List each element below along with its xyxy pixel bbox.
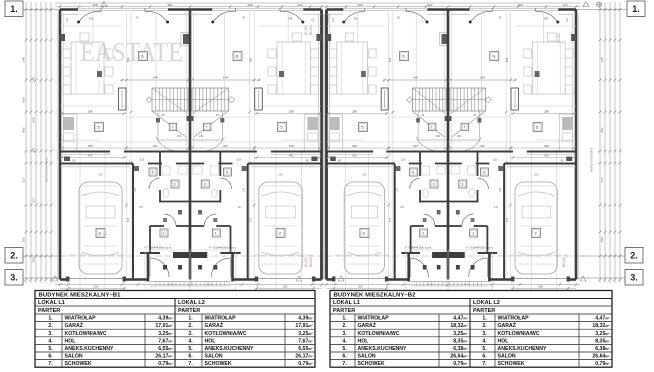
svg-text:250: 250 xyxy=(94,285,99,289)
wall garage side B1-L1 xyxy=(132,164,134,280)
wc fixtures B2-L2 xyxy=(468,166,476,175)
svg-text:4.: 4. xyxy=(188,338,193,344)
driveway lines B1-L1 xyxy=(67,281,69,290)
porch columns B1-L2 xyxy=(213,265,217,270)
svg-text:123: 123 xyxy=(401,158,406,162)
wc fixtures B1-L1 xyxy=(162,166,170,175)
wall garage top B1-L2 xyxy=(248,163,322,165)
room label 7 schowek B1-L1 xyxy=(169,123,177,131)
svg-text:WIATROŁAP: WIATROŁAP xyxy=(498,316,530,322)
section marker 1 left xyxy=(5,1,23,17)
dimension chain bottom xyxy=(55,284,580,286)
wardrobe B2-L2 xyxy=(511,88,518,110)
svg-text:982: 982 xyxy=(32,147,36,152)
svg-text:123: 123 xyxy=(566,17,569,22)
svg-text:LOKAL L1: LOKAL L1 xyxy=(38,300,65,306)
svg-text:250: 250 xyxy=(98,173,103,177)
svg-text:1.: 1. xyxy=(632,4,640,14)
svg-text:298: 298 xyxy=(352,144,357,148)
room label 2 garage B2-L1 xyxy=(360,229,369,238)
svg-text:LOKAL L1: LOKAL L1 xyxy=(333,300,360,306)
svg-text:2.: 2. xyxy=(363,231,366,236)
dim below mid B1-L2 xyxy=(255,157,322,159)
svg-text:EASTATE: EASTATE xyxy=(80,37,183,67)
svg-text:250: 250 xyxy=(283,285,288,289)
svg-text:402: 402 xyxy=(153,144,158,148)
wall mid B2-L1 xyxy=(327,151,374,153)
room label 7 schowek B1-L2 xyxy=(203,123,211,131)
garage door B2-L1 xyxy=(334,278,386,280)
wall wiatrolap B1-L2 xyxy=(230,226,232,253)
faint horizontals B2-L1 xyxy=(327,25,385,27)
svg-text:560: 560 xyxy=(505,57,509,62)
room label 6 salon B2-L2 xyxy=(490,52,499,61)
room label 4 hol B1-L1 xyxy=(149,168,157,176)
svg-text:298: 298 xyxy=(543,17,548,21)
svg-text:147: 147 xyxy=(400,206,405,209)
svg-text:129: 129 xyxy=(134,187,137,192)
svg-text:7.: 7. xyxy=(172,126,175,130)
svg-text:147: 147 xyxy=(494,206,499,209)
svg-text:7.: 7. xyxy=(48,361,53,367)
svg-text:3.: 3. xyxy=(630,273,638,283)
wall top B1-L1 xyxy=(60,8,78,11)
unit B1-L2 group xyxy=(190,8,324,290)
porch columns B1-L1 xyxy=(163,265,167,270)
entrance steps B1-L1 xyxy=(150,281,190,283)
room label 5 kitchen B1-L2 xyxy=(278,123,287,132)
window sill lines top B2-L2 xyxy=(470,7,559,9)
chimney B1-L1 xyxy=(183,34,190,44)
svg-text:123: 123 xyxy=(311,17,314,22)
window sill lines top B1-L1 xyxy=(78,7,168,9)
svg-text:LOKAL L2: LOKAL L2 xyxy=(473,300,500,306)
chairs B1-L2 xyxy=(310,49,318,58)
wall room3 B2-L1 xyxy=(419,152,421,177)
svg-text:298: 298 xyxy=(92,3,97,7)
svg-text:SALON: SALON xyxy=(358,354,376,360)
svg-text:402: 402 xyxy=(413,144,418,148)
svg-text:147: 147 xyxy=(139,206,144,209)
svg-text:123: 123 xyxy=(66,17,69,22)
section marker 1 right xyxy=(627,1,645,17)
drain box outer wall B2-L1 xyxy=(327,34,332,41)
wall mid B2-L2 xyxy=(527,151,576,153)
svg-text:148: 148 xyxy=(22,57,26,62)
table BUDYNEK MIESZKALNY–B2 row lines xyxy=(330,305,612,307)
garage door line B2-L2 xyxy=(511,254,568,256)
porch columns B2-L2 xyxy=(471,265,475,270)
entrance door swing B1-L1 xyxy=(150,258,169,277)
entrance door swing B1-L2 xyxy=(211,258,230,277)
svg-text:3.: 3. xyxy=(461,183,464,187)
svg-text:298: 298 xyxy=(288,17,293,21)
wall room3 B1-L1 xyxy=(159,152,161,177)
room label 1 wiatrolap B1-L1 xyxy=(160,229,168,237)
svg-text:SCHOWEK: SCHOWEK xyxy=(358,361,385,367)
driveway lines B2-L1 xyxy=(333,281,335,290)
svg-text:3.: 3. xyxy=(482,331,487,337)
wall centre B1-L1 xyxy=(189,10,191,280)
svg-text:560: 560 xyxy=(249,57,253,62)
faint horizontals B1-L1 xyxy=(60,25,122,27)
svg-text:6.: 6. xyxy=(493,54,496,59)
svg-text:298: 298 xyxy=(544,109,549,113)
door room3 B1-L2 xyxy=(220,178,231,189)
driveway lines B1-L2 xyxy=(312,281,314,290)
door swing right B2-L1 xyxy=(406,11,427,22)
wall room3 B2-L2 xyxy=(477,152,479,177)
svg-text:7.: 7. xyxy=(431,126,434,130)
svg-text:GARAŻ: GARAŻ xyxy=(498,322,517,329)
dining table B1-L1 xyxy=(71,42,104,94)
svg-text:7.: 7. xyxy=(206,126,209,130)
svg-text:123: 123 xyxy=(562,3,567,7)
car B1-L2 xyxy=(259,182,303,274)
section marker 3 left xyxy=(5,270,23,286)
svg-text:2.: 2. xyxy=(99,231,102,236)
room label 4 hol B1-L2 xyxy=(223,168,231,176)
kitchen B2-L1 xyxy=(328,114,343,151)
stair arc B1-L2 xyxy=(200,137,224,151)
svg-text:123: 123 xyxy=(236,158,241,162)
svg-text:7.: 7. xyxy=(482,361,487,367)
dim bottom B1-L1 xyxy=(60,288,126,290)
svg-text:250: 250 xyxy=(22,237,26,242)
chairs B2-L1 xyxy=(329,49,337,58)
dim below mid B2-L2 xyxy=(511,157,576,159)
svg-text:3.: 3. xyxy=(188,331,193,337)
svg-text:402: 402 xyxy=(352,154,357,158)
svg-text:ANEKS.KUCHENNY: ANEKS.KUCHENNY xyxy=(358,346,408,352)
svg-text:982: 982 xyxy=(600,127,604,132)
window sill lines top B1-L2 xyxy=(212,7,303,9)
faint horizontals B2-L2 xyxy=(515,25,576,27)
wardrobe B1-L2 xyxy=(255,88,263,110)
wall mid B1-L1 xyxy=(60,151,110,153)
fixtures B1-L1 xyxy=(97,71,102,77)
svg-text:5.: 5. xyxy=(536,125,539,130)
drain box outer wall B1-L1 xyxy=(60,34,65,41)
svg-text:6.: 6. xyxy=(342,354,347,360)
svg-text:298: 298 xyxy=(352,109,357,113)
dim stairs B2-L1 xyxy=(383,79,448,81)
wall wiatrolap B2-L2 xyxy=(486,226,488,253)
wall top B2-L2 xyxy=(558,8,576,11)
svg-text:5.: 5. xyxy=(48,346,53,352)
svg-text:402: 402 xyxy=(480,144,485,148)
porch canopy outline B2-L1 xyxy=(406,250,448,290)
wardrobe B2-L1 xyxy=(381,88,388,110)
dim mid B2-L2 xyxy=(448,147,576,149)
dim mid B2-L1 xyxy=(327,147,449,149)
porch columns B2-L1 xyxy=(423,265,427,270)
door wiatrolap B2-L1 xyxy=(424,214,435,226)
door swing right B1-L1 xyxy=(145,11,168,22)
stair arc B1-L1 xyxy=(156,137,180,151)
entrance steps B1-L2 xyxy=(190,281,231,283)
svg-text:129: 129 xyxy=(499,187,502,192)
svg-text:298: 298 xyxy=(357,3,362,7)
wall garage side B1-L2 xyxy=(247,164,249,280)
porch pier B1-L1 xyxy=(173,252,190,258)
svg-text:147: 147 xyxy=(238,206,243,209)
dim 298 B2-L2 xyxy=(511,113,576,115)
svg-text:+7 -0,50=94,50m n.p.m.: +7 -0,50=94,50m n.p.m. xyxy=(466,246,494,250)
svg-text:129: 129 xyxy=(396,187,399,192)
svg-text:182: 182 xyxy=(199,134,204,138)
chimney B2-L1 xyxy=(442,34,449,44)
wall centre B1-L2 xyxy=(189,10,191,280)
extension lines B1-L2 xyxy=(253,12,255,277)
garage door B2-L2 xyxy=(513,278,568,280)
svg-text:7.: 7. xyxy=(463,126,466,130)
svg-text:5.: 5. xyxy=(482,346,487,352)
section marker 2 left xyxy=(5,248,23,264)
svg-text:402: 402 xyxy=(544,154,549,158)
svg-text:402: 402 xyxy=(88,154,93,158)
svg-text:WIATROŁAP: WIATROŁAP xyxy=(205,316,237,322)
dim below mid B1-L1 xyxy=(60,157,126,159)
svg-text:PARTER: PARTER xyxy=(333,308,355,314)
wall garage top B2-L2 xyxy=(504,163,576,165)
porch top wall B2-L2 xyxy=(478,252,498,254)
wall top B1-L2 xyxy=(303,8,321,11)
svg-text:PARTER: PARTER xyxy=(473,308,495,314)
svg-text:4.: 4. xyxy=(342,338,347,344)
svg-text:3.: 3. xyxy=(10,273,18,283)
porch top wall B1-L1 xyxy=(140,252,160,254)
svg-text:1.: 1. xyxy=(342,316,347,322)
svg-text:317: 317 xyxy=(32,197,36,202)
svg-text:2.: 2. xyxy=(10,251,18,261)
svg-text:60: 60 xyxy=(72,159,76,163)
svg-text:+7 -0,50=94,50m n.p.m.: +7 -0,50=94,50m n.p.m. xyxy=(144,246,172,250)
porch side wall B1-L2 xyxy=(231,253,234,282)
table BUDYNEK MIESZKALNY–B2 lokal2 xyxy=(469,299,471,368)
room label 7 schowek B2-L2 xyxy=(461,123,469,131)
svg-text:RC160: RC160 xyxy=(562,257,566,268)
top corner marker right xyxy=(583,2,589,7)
svg-text:1.: 1. xyxy=(48,316,53,322)
car B2-L2 xyxy=(515,182,557,274)
svg-text:60: 60 xyxy=(338,159,342,163)
door wiatrolap B2-L2 xyxy=(462,214,474,226)
svg-text:KOTŁOWNIA/WC: KOTŁOWNIA/WC xyxy=(65,331,107,337)
svg-text:2.: 2. xyxy=(48,323,53,329)
svg-text:ANEKS.KUCHENNY: ANEKS.KUCHENNY xyxy=(65,346,115,352)
svg-text:1.: 1. xyxy=(422,232,425,236)
svg-text:250: 250 xyxy=(362,173,367,177)
svg-text:6.: 6. xyxy=(402,54,405,59)
wall outer B1-L2 xyxy=(320,10,323,280)
svg-text:250: 250 xyxy=(32,257,36,262)
svg-text:RL160: RL160 xyxy=(304,25,308,35)
svg-text:1.: 1. xyxy=(472,232,475,236)
svg-text:148: 148 xyxy=(480,76,485,80)
svg-text:1.: 1. xyxy=(188,316,193,322)
porch canopy outline B2-L2 xyxy=(448,250,492,290)
table BUDYNEK MIESZKALNY–B1 row lines xyxy=(35,305,315,307)
dim stairs B1-L1 xyxy=(120,79,190,81)
door swing right B2-L2 xyxy=(470,11,492,22)
door room3 B2-L2 xyxy=(478,178,489,189)
svg-text:250: 250 xyxy=(538,285,543,289)
car B2-L1 xyxy=(344,182,384,274)
extension lines B1-L1 xyxy=(126,12,128,277)
svg-text:1.: 1. xyxy=(215,232,218,236)
svg-text:1.: 1. xyxy=(163,232,166,236)
svg-text:6.: 6. xyxy=(141,54,144,59)
svg-text:317: 317 xyxy=(22,177,26,182)
wc fixtures B2-L1 xyxy=(422,166,430,175)
unit B2-L1 group xyxy=(324,8,448,290)
dimension chain left xyxy=(25,2,27,283)
extension lines B2-L1 xyxy=(388,12,390,277)
svg-text:ANEKS.KUCHENNY: ANEKS.KUCHENNY xyxy=(498,346,548,352)
porch side wall B2-L2 xyxy=(488,253,491,282)
wardrobe B1-L1 xyxy=(119,88,127,110)
section line 2 xyxy=(60,255,576,257)
svg-text:KOTŁOWNIA/WC: KOTŁOWNIA/WC xyxy=(358,331,400,337)
svg-text:HOL: HOL xyxy=(65,338,77,344)
svg-text:148: 148 xyxy=(152,76,157,80)
window sill lines top B2-L1 xyxy=(343,7,427,9)
unit B1-L1 group xyxy=(58,8,190,290)
wall garage side B2-L1 xyxy=(394,164,396,280)
svg-text:2.: 2. xyxy=(342,323,347,329)
svg-text:148: 148 xyxy=(32,77,36,82)
section marker 3 right xyxy=(625,270,643,286)
svg-text:298: 298 xyxy=(88,109,93,113)
room label 7 schowek B2-L1 xyxy=(428,123,436,131)
svg-text:w. xx: w. xx xyxy=(428,283,434,286)
garage door B1-L1 xyxy=(68,278,124,280)
svg-text:148: 148 xyxy=(600,57,604,62)
svg-text:wełna mineralna: wełna mineralna xyxy=(45,158,49,183)
svg-text:KOTŁOWNIA/WC: KOTŁOWNIA/WC xyxy=(205,331,247,337)
porch pier B1-L2 xyxy=(190,252,207,258)
svg-text:572: 572 xyxy=(126,217,130,222)
svg-text:182: 182 xyxy=(177,134,182,138)
dining table B2-L1 xyxy=(337,42,368,94)
door swing right B1-L2 xyxy=(213,11,236,22)
svg-text:SCHOWEK: SCHOWEK xyxy=(65,361,92,367)
svg-text:982: 982 xyxy=(427,3,432,7)
svg-text:7.: 7. xyxy=(342,361,347,367)
svg-text:SCHOWEK: SCHOWEK xyxy=(498,361,525,367)
room label 6 salon B1-L2 xyxy=(233,52,242,61)
svg-text:298: 298 xyxy=(289,144,294,148)
svg-text:250: 250 xyxy=(600,237,604,242)
section marker 2 right xyxy=(625,248,643,264)
svg-text:148: 148 xyxy=(413,76,418,80)
room label 2 garage B2-L2 xyxy=(532,229,541,238)
svg-text:6.: 6. xyxy=(236,54,239,59)
svg-text:WIATROŁAP: WIATROŁAP xyxy=(65,316,97,322)
drain box outer wall B1-L2 xyxy=(316,34,321,41)
svg-text:3.: 3. xyxy=(204,183,207,187)
svg-text:GARAŻ: GARAŻ xyxy=(358,322,377,329)
table BUDYNEK MIESZKALNY–B1 lokal2 xyxy=(174,299,176,368)
svg-text:572: 572 xyxy=(388,217,392,222)
svg-text:7.: 7. xyxy=(188,361,193,367)
room label 3 B2-L1 xyxy=(430,180,438,188)
dim 298 B2-L1 xyxy=(327,113,389,115)
porch pier B2-L1 xyxy=(432,252,448,258)
kitchen B1-L1 xyxy=(62,114,78,151)
svg-text:560: 560 xyxy=(126,57,130,62)
unit B2-L2 group xyxy=(448,8,578,290)
svg-text:3.: 3. xyxy=(342,331,347,337)
stair arc B2-L2 xyxy=(458,137,482,151)
room label 5 kitchen B2-L2 xyxy=(533,123,542,132)
wall outer B2-L1 xyxy=(325,10,328,280)
svg-text:GARAŻ: GARAŻ xyxy=(65,322,84,329)
porch top wall B2-L1 xyxy=(401,252,420,254)
kitchen B1-L2 xyxy=(304,114,320,151)
svg-text:250: 250 xyxy=(358,285,363,289)
dim bottom B1-L2 xyxy=(255,288,322,290)
svg-text:wełna mineralna: wełna mineralna xyxy=(590,148,594,173)
svg-text:317: 317 xyxy=(600,177,604,182)
wall mid B1-L2 xyxy=(271,151,322,153)
stairs B2-L1 xyxy=(413,88,447,111)
svg-text:2.: 2. xyxy=(482,323,487,329)
porch side wall B2-L1 xyxy=(407,253,410,282)
svg-text:4.: 4. xyxy=(482,338,487,344)
driveway lines B2-L2 xyxy=(567,281,569,290)
faint horizontals B1-L2 xyxy=(259,25,322,27)
room label 3 B2-L2 xyxy=(459,180,467,188)
chairs B2-L2 xyxy=(565,49,573,58)
room label 1 wiatrolap B1-L2 xyxy=(212,229,220,237)
svg-text:5.: 5. xyxy=(361,125,364,130)
svg-text:+7 -0,50=94,50m n.p.m.: +7 -0,50=94,50m n.p.m. xyxy=(209,246,237,250)
svg-text:4.: 4. xyxy=(48,338,53,344)
table BUDYNEK MIESZKALNY–B2 frame xyxy=(330,291,612,368)
wall wiatrolap B1-L1 xyxy=(149,226,151,253)
svg-text:SALON: SALON xyxy=(205,354,223,360)
svg-text:298: 298 xyxy=(517,3,522,7)
svg-text:402: 402 xyxy=(289,154,294,158)
svg-text:298: 298 xyxy=(544,144,549,148)
door room3 B1-L1 xyxy=(149,178,160,189)
svg-text:250: 250 xyxy=(278,173,283,177)
svg-text:3.: 3. xyxy=(174,183,177,187)
table BUDYNEK MIESZKALNY–B1 frame xyxy=(35,291,315,368)
svg-text:BUDYNEK MIESZKALNY–B2: BUDYNEK MIESZKALNY–B2 xyxy=(334,292,417,298)
entrance door swing B2-L1 xyxy=(411,258,429,277)
room label 2 garage B1-L2 xyxy=(276,229,285,238)
door swing left B2-L2 xyxy=(536,11,558,22)
svg-text:60: 60 xyxy=(561,159,565,163)
svg-text:RL160: RL160 xyxy=(304,257,308,267)
room label 6 salon B2-L1 xyxy=(400,52,409,61)
door swing left B2-L1 xyxy=(344,11,365,22)
svg-text:298: 298 xyxy=(289,109,294,113)
fixtures B1-L2 xyxy=(279,71,284,77)
wall bottom B2-L2 xyxy=(568,278,576,281)
dim mid B1-L2 xyxy=(190,147,322,149)
svg-text:3.: 3. xyxy=(433,183,436,187)
door room3 B2-L1 xyxy=(410,178,420,189)
svg-text:ANEKS.KUCHENNY: ANEKS.KUCHENNY xyxy=(205,346,255,352)
room label 2 garage B1-L1 xyxy=(96,229,105,238)
svg-text:PARTER: PARTER xyxy=(38,308,60,314)
dim 298 B1-L1 xyxy=(60,113,126,115)
car B1-L1 xyxy=(79,182,122,274)
